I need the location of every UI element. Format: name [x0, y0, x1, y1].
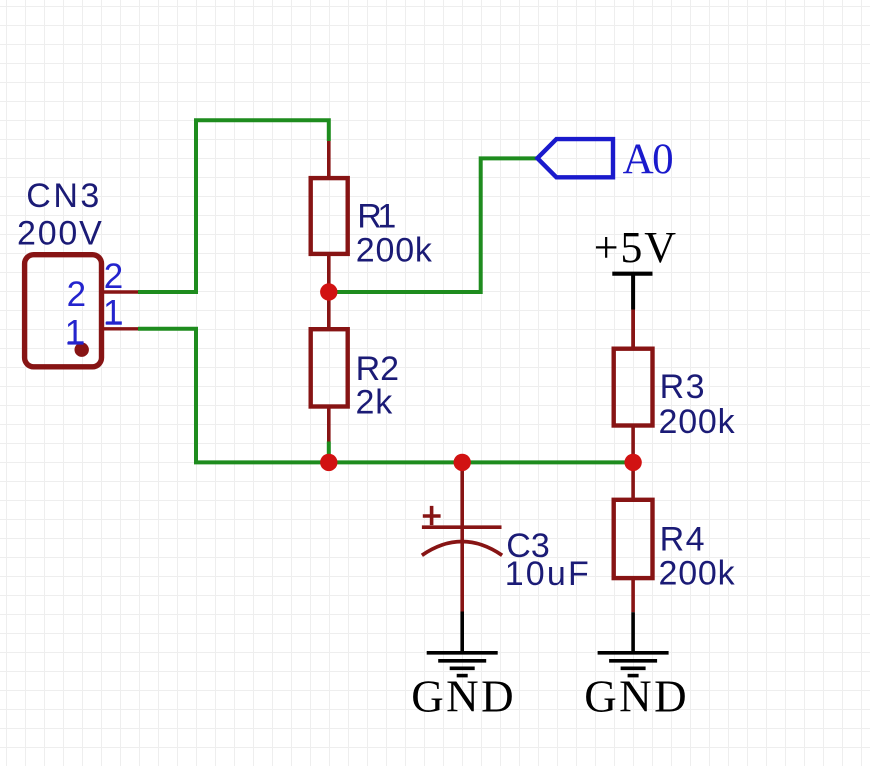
- svg-text:1: 1: [103, 294, 122, 333]
- resistor R1 body: [311, 178, 348, 254]
- svg-text:200k: 200k: [659, 555, 736, 593]
- ground GND1 stem: [460, 612, 464, 653]
- R4 top pin stub: [631, 462, 635, 499]
- ground GND1 bar1: [427, 651, 498, 655]
- R1 top pin stub: [327, 141, 331, 178]
- capacitor C3 top lead: [460, 462, 464, 527]
- svg-text:R1: R1: [357, 197, 395, 235]
- svg-text:R4: R4: [660, 521, 706, 559]
- C3 bottom lead: [460, 527, 464, 612]
- resistor R4 body: [614, 500, 653, 578]
- CN3 pin 1 line: [104, 327, 138, 330]
- wire net pin2 to top loop: [138, 120, 329, 292]
- C3 plus sign: [423, 506, 441, 525]
- CN3 pin name 1 underline: [68, 341, 84, 344]
- C3 bottom curved plate: [422, 542, 502, 556]
- R3 bottom pin stub: [631, 426, 635, 463]
- svg-text:R2: R2: [356, 350, 399, 388]
- R4 bottom pin stub: [631, 578, 635, 612]
- power +5V stem: [631, 274, 635, 310]
- ground GND2 bar2: [609, 659, 657, 663]
- svg-text:10uF: 10uF: [505, 555, 591, 593]
- junction dot R2 bottom rail: [320, 454, 337, 471]
- net flag A0 pentagon: [537, 139, 613, 177]
- R2 bottom pin stub: [327, 407, 331, 442]
- svg-text:2: 2: [104, 257, 123, 296]
- ground GND1 bar3: [450, 666, 475, 670]
- svg-text:R3: R3: [660, 368, 706, 406]
- ground GND1 bar4: [457, 674, 468, 678]
- ground GND2 bar1: [598, 651, 669, 655]
- ground GND2 bar3: [621, 666, 646, 670]
- ground GND2 stem: [631, 612, 635, 653]
- wire net pin1 to bottom rail: [138, 329, 633, 463]
- svg-text:200k: 200k: [356, 231, 433, 269]
- junction dot R3/R4 rail: [624, 454, 641, 471]
- connector CN3 body: [25, 255, 102, 367]
- wire node R1-R2 to A0: [329, 158, 538, 292]
- svg-text:200k: 200k: [659, 403, 736, 441]
- svg-text:A0: A0: [623, 136, 673, 183]
- R2 top pin stub: [327, 292, 331, 329]
- svg-text:1: 1: [65, 314, 84, 353]
- ground GND2 bar4: [628, 674, 639, 678]
- resistor R3 body: [614, 349, 653, 426]
- CN3 pin 2 line: [104, 290, 138, 293]
- ground GND1 bar2: [438, 659, 486, 663]
- svg-text:200V: 200V: [17, 215, 104, 253]
- svg-text:GND: GND: [584, 671, 689, 721]
- svg-text:2: 2: [67, 275, 86, 314]
- CN3 pin number 1 underline: [106, 321, 122, 324]
- svg-text:2k: 2k: [356, 383, 394, 421]
- CN3 pin1 polarity dot: [75, 343, 89, 357]
- resistor R2 body: [311, 329, 348, 406]
- R1 bottom pin stub: [327, 254, 331, 292]
- R3 top pin stub: [631, 310, 635, 349]
- svg-text:GND: GND: [411, 671, 516, 721]
- junction dot C3 rail: [454, 454, 471, 471]
- C3 top plate: [422, 525, 502, 529]
- svg-text:+5V: +5V: [594, 223, 678, 272]
- wire R2 bottom to rail: [327, 442, 331, 463]
- power +5V bar: [612, 272, 652, 276]
- svg-text:CN3: CN3: [26, 177, 102, 215]
- junction dot R1/R2/A0: [320, 283, 337, 300]
